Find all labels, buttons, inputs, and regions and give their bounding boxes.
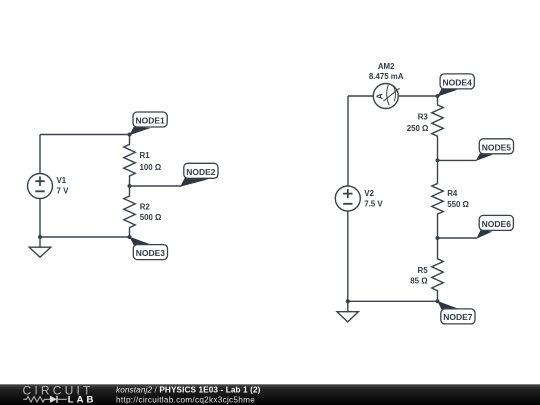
svg-text:NODE4: NODE4	[443, 77, 473, 87]
svg-text:R2: R2	[140, 203, 151, 212]
svg-text:NODE2: NODE2	[186, 167, 216, 177]
svg-text:V2: V2	[364, 189, 374, 198]
svg-text:NODE7: NODE7	[443, 312, 473, 322]
resistor R1	[124, 135, 161, 187]
svg-text:AM2: AM2	[378, 62, 395, 71]
svg-text:8.475 mA: 8.475 mA	[369, 72, 404, 81]
svg-text:7.5 V: 7.5 V	[364, 199, 383, 208]
svg-text:7 V: 7 V	[57, 187, 70, 196]
wire top right horizontal (to ammeter)	[348, 95, 373, 97]
node NODE5	[476, 139, 514, 161]
ground (left)	[29, 237, 50, 257]
resistor R3	[407, 96, 444, 160]
junction dot bottom left	[38, 235, 42, 239]
svg-text:R3: R3	[418, 113, 429, 122]
junction dot NODE1	[128, 133, 132, 137]
ammeter AM2	[369, 62, 404, 108]
resistor R2	[124, 186, 162, 237]
wire NODE5 horizontal	[438, 159, 477, 161]
footer bar	[0, 384, 540, 405]
junction dot NODE6	[436, 236, 440, 240]
node NODE4	[437, 74, 474, 97]
voltage source V1	[28, 174, 70, 199]
junction dot NODE7	[436, 299, 440, 303]
ground (right)	[337, 301, 358, 322]
wire NODE6 horizontal	[438, 237, 477, 239]
node NODE7	[437, 301, 475, 324]
node NODE3	[129, 237, 167, 260]
wire ammeter to NODE4	[398, 95, 437, 97]
resistor R5	[410, 238, 443, 301]
svg-text:V1: V1	[57, 176, 67, 185]
voltage source V2	[335, 186, 383, 211]
svg-text:NODE5: NODE5	[482, 142, 512, 152]
junction dot NODE5	[436, 158, 440, 162]
node NODE2	[180, 163, 218, 186]
svg-text:500 Ω: 500 Ω	[140, 213, 162, 222]
svg-text:R4: R4	[447, 189, 458, 198]
svg-text:85 Ω: 85 Ω	[410, 276, 427, 285]
wire NODE2 horizontal	[130, 185, 182, 187]
svg-text:R1: R1	[140, 151, 151, 160]
svg-text:550 Ω: 550 Ω	[447, 200, 469, 209]
wire below V2	[347, 211, 349, 301]
svg-text:NODE6: NODE6	[482, 219, 512, 229]
svg-text:100 Ω: 100 Ω	[140, 163, 162, 172]
svg-text:NODE3: NODE3	[136, 248, 166, 258]
logo resistor-diode glyph	[23, 396, 67, 403]
wire top left (NODE1 horizontal)	[40, 134, 130, 136]
svg-text:konstanj2 / PHYSICS 1E03 - Lab: konstanj2 / PHYSICS 1E03 - Lab 1 (2)	[116, 386, 261, 395]
wire bottom right horizontal	[348, 300, 438, 302]
svg-text:http://circuitlab.com/cq2kx3cj: http://circuitlab.com/cq2kx3cjc5hme	[116, 395, 255, 404]
svg-text:250 Ω: 250 Ω	[407, 124, 429, 133]
junction dot NODE4	[436, 94, 440, 98]
node NODE6	[476, 215, 513, 238]
wire left vertical above V1	[39, 135, 41, 174]
svg-text:LAB: LAB	[68, 394, 97, 405]
svg-text:R5: R5	[418, 266, 429, 275]
node NODE1	[129, 112, 167, 135]
resistor R4	[432, 160, 469, 238]
svg-text:NODE1: NODE1	[135, 116, 165, 126]
junction dot bottom right	[346, 299, 350, 303]
wire bottom left horizontal	[40, 236, 130, 238]
wire left vertical below V1	[39, 199, 41, 238]
wire right circuit left vertical above V2	[347, 96, 349, 186]
junction dot NODE3	[128, 235, 132, 239]
svg-text:A: A	[375, 93, 385, 99]
junction dot NODE2	[128, 184, 132, 188]
